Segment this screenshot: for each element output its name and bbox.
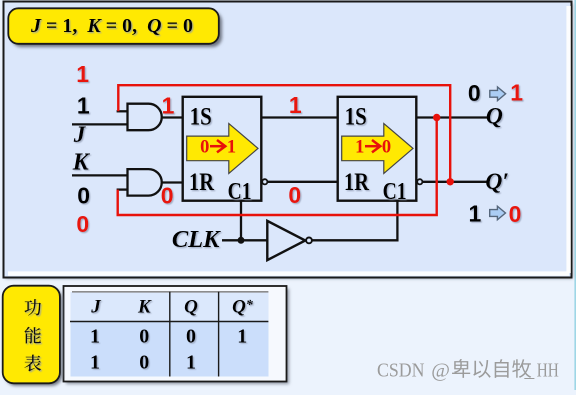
svg-text:Q: Q (184, 297, 198, 318)
svg-text:1R: 1R (344, 167, 369, 196)
table top rule (72, 291, 268, 293)
wire CLK to master C1 (240, 200, 242, 240)
svg-text:0: 0 (77, 182, 90, 208)
wire AND1 output (162, 116, 183, 118)
wire Q-bar output (423, 181, 488, 183)
red feedback wire Q to G2 (118, 120, 437, 216)
wire Q output (416, 116, 488, 118)
red feedback wire Qbar to G1 (118, 85, 450, 180)
junction node Qbar feedback (447, 178, 454, 185)
svg-text:C1: C1 (228, 179, 252, 205)
inverter bubble (306, 238, 312, 244)
svg-text:0: 0 (288, 182, 301, 208)
wire J input (72, 123, 128, 125)
latch U1 (master) box (183, 97, 262, 201)
wire K input (72, 174, 128, 176)
svg-text:HH: HH (537, 361, 559, 382)
svg-text:0: 0 (509, 201, 522, 227)
table header rule (70, 321, 268, 323)
svg-text:1: 1 (77, 93, 90, 119)
svg-text:0: 0 (161, 182, 174, 208)
svg-text:0: 0 (200, 138, 209, 158)
svg-text:1: 1 (289, 92, 302, 118)
inverter on CLK (267, 221, 305, 260)
svg-text:1: 1 (227, 138, 236, 158)
svg-text:K: K (137, 297, 152, 318)
svg-text:Q′: Q′ (485, 169, 509, 195)
wire AND1 top input stub (117, 110, 128, 112)
label neng (24, 327, 40, 344)
svg-text:1R: 1R (189, 167, 214, 196)
svg-text:1: 1 (186, 351, 196, 373)
svg-text:K: K (72, 150, 91, 176)
svg-text:1: 1 (237, 325, 247, 347)
svg-text:1: 1 (90, 351, 100, 373)
svg-text:1: 1 (355, 138, 364, 158)
svg-text:1S: 1S (190, 102, 212, 131)
blue arrow at Qbar annotation (490, 206, 506, 220)
svg-text:J = 1, K = 0, Q = 0: J = 1, K = 0, Q = 0 (30, 15, 193, 37)
label biao (24, 355, 41, 372)
svg-text:1: 1 (162, 92, 175, 118)
wire AND2 bottom input stub (117, 188, 128, 190)
svg-text:0: 0 (139, 351, 149, 373)
latch U2 inverted output bubble (417, 179, 422, 184)
label gong (24, 299, 41, 315)
svg-text:J: J (73, 122, 87, 147)
svg-text:@: @ (431, 361, 450, 382)
wire AND2 output (162, 181, 183, 183)
junction node Q feedback (433, 114, 440, 121)
svg-text:CSDN: CSDN (377, 361, 425, 382)
wire inverter to slave C1 (312, 200, 398, 240)
svg-text:Q: Q (486, 104, 503, 130)
svg-text:1: 1 (90, 325, 100, 347)
decorative right edge line (574, 0, 576, 390)
svg-text:0: 0 (382, 138, 391, 158)
table vertical rule Q|Q* (218, 292, 220, 377)
svg-text:1S: 1S (345, 102, 367, 131)
svg-text:1: 1 (469, 201, 482, 227)
table body background (71, 322, 269, 377)
svg-text:C1: C1 (383, 179, 407, 205)
svg-text:0: 0 (139, 325, 149, 347)
watermark CSDN (377, 359, 559, 381)
AND gate G2 (K side) (128, 169, 162, 196)
AND gate G1 (J side) (128, 104, 162, 131)
svg-text:CLK: CLK (172, 226, 221, 253)
wire R1 between latches (267, 181, 337, 183)
wire CLK horizontal (222, 239, 267, 241)
table vertical rule K|Q (169, 292, 171, 377)
wire S1 between latches (261, 116, 337, 118)
svg-text:0: 0 (186, 325, 196, 347)
svg-text:0: 0 (76, 211, 89, 237)
yellow arrow 1 to 0 in U2 (342, 124, 413, 174)
svg-text:1: 1 (76, 61, 89, 87)
latch U1 inverted output bubble (262, 179, 267, 184)
svg-text:J: J (90, 297, 101, 318)
yellow arrow 0 to 1 in U1 (187, 124, 258, 174)
junction CLK node (238, 237, 245, 244)
main circuit panel frame (6, 4, 573, 279)
latch U2 (slave) box (338, 97, 417, 201)
function table panel (66, 289, 289, 385)
caption box J=1 K=0 Q=0 (12, 12, 223, 48)
blue arrow at Q annotation (490, 87, 506, 101)
svg-text:_: _ (524, 361, 535, 382)
yellow label box gong-neng-biao (5, 288, 62, 386)
table header row background (71, 292, 269, 322)
svg-text:1: 1 (510, 80, 523, 106)
svg-text:0: 0 (468, 80, 481, 106)
